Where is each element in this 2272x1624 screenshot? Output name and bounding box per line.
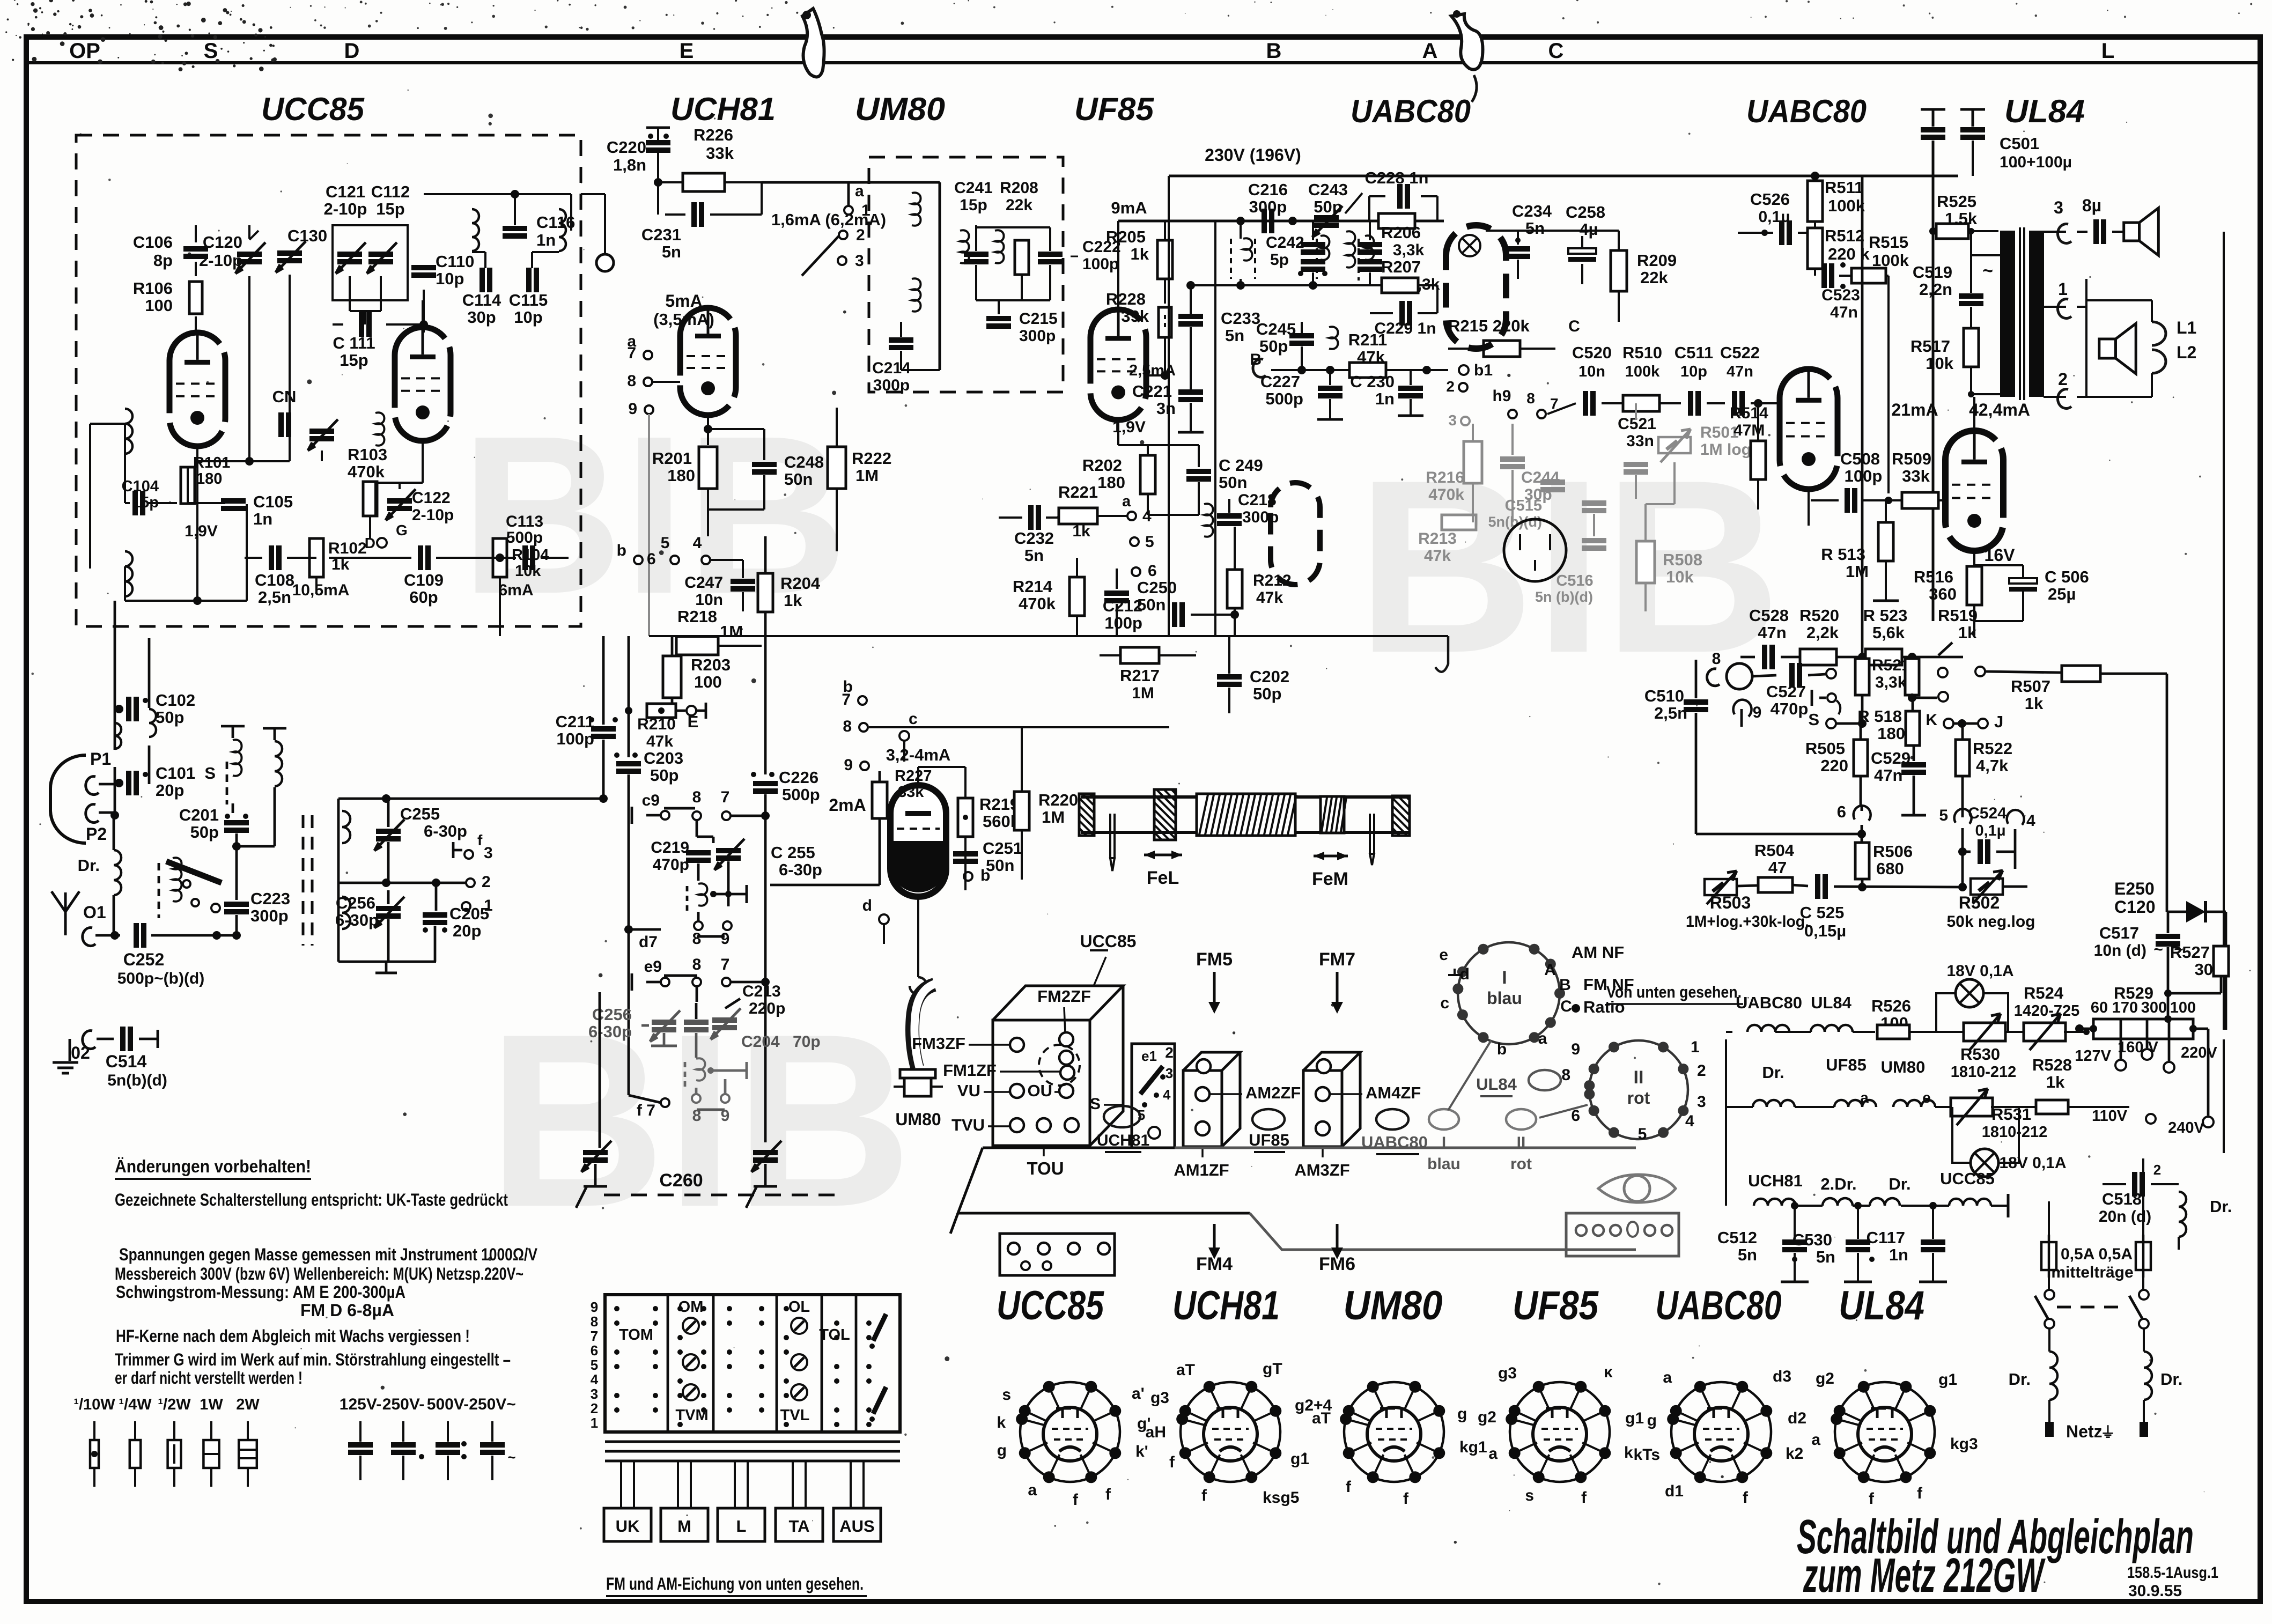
svg-text:5: 5 [1939,807,1948,824]
svg-text:R515: R515 [1869,233,1908,252]
svg-text:UCH81: UCH81 [1748,1171,1803,1190]
svg-text:UABC80: UABC80 [1656,1283,1782,1328]
svg-text:UK: UK [616,1517,640,1536]
svg-text:R508: R508 [1663,550,1702,569]
svg-text:AUS: AUS [839,1517,874,1536]
svg-text:3: 3 [484,844,493,862]
svg-text:2,5n: 2,5n [1654,704,1687,722]
svg-text:UL84: UL84 [1839,1283,1924,1328]
svg-text:AM2ZF: AM2ZF [1245,1083,1301,1102]
svg-text:f: f [477,832,483,848]
svg-text:3: 3 [591,1386,598,1402]
svg-text:g3: g3 [1150,1389,1169,1407]
svg-text:8: 8 [692,930,702,948]
svg-text:4: 4 [693,534,702,552]
svg-text:C120: C120 [2114,897,2156,917]
svg-text:158.5-1Ausg.1: 158.5-1Ausg.1 [2127,1564,2218,1582]
svg-text:R208: R208 [1000,179,1038,197]
svg-text:C106: C106 [133,233,173,252]
svg-text:10p: 10p [1680,363,1707,380]
svg-text:9: 9 [1753,704,1762,721]
svg-text:7: 7 [721,788,730,806]
svg-text:a: a [1488,1445,1498,1463]
svg-text:470p: 470p [653,856,689,874]
svg-text:Dr.: Dr. [1762,1063,1784,1082]
svg-text:2: 2 [1165,1044,1174,1061]
svg-text:TVL: TVL [780,1407,810,1424]
svg-text:C223: C223 [250,889,290,908]
svg-text:g: g [1457,1405,1467,1423]
svg-text:Trimmer G wird im Werk auf min: Trimmer G wird im Werk auf min. Störstra… [115,1350,511,1369]
svg-text:1: 1 [591,1415,598,1431]
svg-text:~: ~ [2153,941,2163,958]
svg-text:f: f [1581,1489,1587,1507]
svg-text:FM1ZF: FM1ZF [943,1061,997,1080]
svg-text:C214: C214 [872,359,911,377]
svg-text:C220: C220 [607,138,646,157]
svg-text:VU: VU [957,1081,980,1100]
svg-text:C260: C260 [659,1170,703,1191]
svg-text:C205: C205 [449,904,489,923]
svg-text:g: g [1647,1412,1657,1429]
svg-text:s: s [1525,1487,1534,1504]
svg-text:aT: aT [1312,1409,1331,1427]
svg-text:R 513: R 513 [1821,545,1865,564]
svg-text:C255: C255 [400,804,440,823]
svg-text:TOM: TOM [619,1326,653,1344]
svg-text:c: c [1440,994,1449,1012]
svg-text:1,8n: 1,8n [613,156,646,174]
svg-text:R517: R517 [1910,337,1950,356]
svg-text:b: b [617,542,626,559]
svg-text:220p: 220p [749,1000,785,1017]
svg-text:1k: 1k [2046,1073,2065,1091]
svg-text:1M log.: 1M log. [1700,441,1755,459]
svg-text:2mA: 2mA [829,795,866,815]
svg-text:C122: C122 [412,489,451,507]
svg-text:500V-: 500V- [427,1396,469,1413]
svg-text:R505: R505 [1805,739,1845,758]
svg-text:k2: k2 [1786,1445,1803,1463]
svg-text:kTs: kTs [1634,1446,1660,1464]
svg-text:UCC85: UCC85 [1080,932,1137,951]
svg-text:c: c [909,710,918,728]
svg-text:1k: 1k [784,591,802,610]
svg-text:220 k: 220 k [1828,245,1870,263]
svg-text:30p: 30p [467,308,496,327]
svg-text:UM80: UM80 [895,1110,941,1129]
svg-text:II: II [1634,1067,1644,1088]
svg-text:a': a' [1132,1385,1145,1402]
svg-text:b: b [1497,1040,1507,1058]
svg-text:d3: d3 [1773,1368,1791,1385]
svg-text:h9: h9 [1492,387,1511,405]
svg-text:C519: C519 [1913,263,1952,282]
svg-text:d2: d2 [1788,1409,1806,1427]
svg-text:R205: R205 [1106,227,1146,246]
svg-text:C524: C524 [1968,804,2007,822]
svg-text:6mA: 6mA [498,581,533,599]
svg-text:d7: d7 [639,933,658,951]
svg-text:5n (b)(d): 5n (b)(d) [1535,589,1593,605]
svg-text:C517: C517 [2099,924,2139,942]
svg-text:8µ: 8µ [2082,196,2101,215]
svg-text:P1: P1 [90,749,111,769]
svg-text:TA: TA [788,1517,809,1536]
svg-text:R216: R216 [1426,469,1464,486]
svg-text:C112: C112 [371,182,410,201]
svg-text:5n: 5n [1525,219,1545,238]
svg-text:42,4mA: 42,4mA [1969,400,2030,419]
svg-text:C256: C256 [592,1005,632,1024]
svg-text:9: 9 [591,1299,598,1315]
svg-text:UABC80: UABC80 [1351,93,1471,129]
svg-text:50n: 50n [986,856,1014,875]
svg-text:C250: C250 [1137,578,1177,597]
svg-text:kg3: kg3 [1950,1435,1978,1453]
svg-text:C501: C501 [2000,134,2039,153]
svg-text:470p: 470p [1771,699,1809,718]
svg-text:e: e [1439,946,1448,964]
svg-text:10k: 10k [1926,354,1953,373]
svg-text:UF85: UF85 [1074,91,1155,127]
svg-text:10,5mA: 10,5mA [292,581,350,599]
svg-text:R217: R217 [1120,666,1160,685]
svg-text:5n: 5n [1738,1245,1757,1264]
svg-text:50p: 50p [650,766,678,785]
svg-text:R520: R520 [1799,606,1839,625]
svg-text:300p: 300p [250,906,289,925]
svg-text:Von unten gesehen.: Von unten gesehen. [1606,983,1742,1001]
svg-text:100: 100 [694,673,722,691]
svg-text:R522: R522 [1973,739,2012,758]
svg-text:TVM: TVM [675,1407,708,1424]
svg-text:C242: C242 [1266,234,1304,252]
svg-text:100p: 100p [556,729,594,748]
svg-text:C: C [1548,39,1564,63]
svg-text:100: 100 [2170,999,2196,1016]
svg-text:10k: 10k [1666,567,1694,586]
svg-text:a: a [1122,493,1131,510]
svg-text:6: 6 [591,1342,598,1359]
svg-text:UCC85: UCC85 [1940,1169,1995,1188]
svg-text:C105: C105 [253,492,293,511]
svg-text:8p: 8p [153,251,173,270]
svg-text:5,6k: 5,6k [1872,623,1905,642]
svg-text:a: a [1028,1481,1037,1499]
svg-text:κ: κ [1604,1363,1613,1381]
svg-text:FeM: FeM [1312,869,1348,889]
svg-text:100p: 100p [1104,614,1142,632]
svg-text:R509: R509 [1892,449,1931,468]
svg-text:C234: C234 [1512,202,1552,220]
svg-text:C530: C530 [1792,1230,1832,1249]
svg-text:180: 180 [1877,724,1905,743]
svg-text:33n: 33n [1626,432,1654,450]
svg-text:220V: 220V [2181,1044,2217,1061]
svg-text:L2: L2 [2177,343,2196,362]
svg-text:2,5mA: 2,5mA [1129,362,1176,379]
svg-text:C113: C113 [506,513,543,530]
svg-text:C 506: C 506 [2045,567,2089,586]
svg-text:R524: R524 [2024,984,2064,1002]
svg-text:470k: 470k [348,462,385,481]
svg-text:rot: rot [1510,1155,1532,1173]
svg-text:170: 170 [2112,999,2138,1016]
svg-text:R510: R510 [1622,343,1662,362]
svg-text:470k: 470k [1428,486,1464,504]
svg-text:C211: C211 [556,712,594,731]
svg-text:C233: C233 [1221,309,1260,328]
svg-text:S: S [204,764,216,783]
svg-text:R202: R202 [1082,456,1122,475]
svg-text:a: a [1538,1030,1547,1047]
svg-text:8: 8 [627,372,636,390]
svg-text:Dr.: Dr. [1889,1175,1910,1193]
svg-text:AM3ZF: AM3ZF [1294,1161,1349,1179]
svg-text:9: 9 [1571,1040,1580,1058]
svg-text:3,3k: 3,3k [1393,241,1425,259]
svg-text:0,1µ: 0,1µ [1975,822,2005,839]
svg-text:s: s [1002,1386,1011,1404]
svg-text:6-30p: 6-30p [424,822,467,840]
svg-text:2: 2 [1697,1062,1706,1080]
svg-text:R103: R103 [348,445,387,464]
svg-text:f 7: f 7 [637,1102,655,1119]
svg-text:R221: R221 [1058,483,1098,501]
svg-text:6: 6 [1837,802,1846,821]
svg-text:180: 180 [196,470,222,488]
svg-text:UL84: UL84 [2004,93,2085,129]
svg-text:B: B [1266,39,1282,63]
svg-text:30: 30 [2195,960,2213,979]
svg-text:1810-212: 1810-212 [1982,1124,2048,1141]
svg-text:a: a [1663,1369,1672,1386]
svg-text:Dr.: Dr. [78,856,100,875]
svg-text:C527: C527 [1766,682,1806,701]
svg-text:8: 8 [1526,390,1535,407]
svg-text:OM: OM [678,1298,704,1316]
svg-text:60: 60 [2091,999,2108,1016]
svg-text:2,2n: 2,2n [1919,280,1952,299]
svg-text:8: 8 [692,956,702,973]
svg-text:f: f [1073,1491,1079,1509]
svg-text:21mA: 21mA [1891,400,1938,419]
svg-text:g: g [997,1442,1007,1459]
svg-text:UM80: UM80 [1344,1283,1443,1328]
svg-text:UM80: UM80 [855,91,945,127]
svg-text:C228 1n: C228 1n [1365,168,1429,187]
svg-text:1: 1 [2058,279,2068,299]
svg-text:100+100µ: 100+100µ [2000,153,2072,171]
svg-text:5: 5 [1638,1125,1647,1143]
svg-text:R527: R527 [2170,943,2210,962]
svg-text:Dr.: Dr. [2009,1370,2031,1389]
svg-text:C 249: C 249 [1219,456,1263,475]
svg-text:4,7k: 4,7k [1976,756,2009,775]
svg-text:a: a [1811,1431,1820,1449]
svg-text:C232: C232 [1014,529,1054,548]
svg-text:b1: b1 [1474,361,1493,379]
svg-text:er darf nicht verstellt werden: er darf nicht verstellt werden ! [115,1368,303,1387]
svg-text:R507: R507 [2011,677,2050,696]
svg-text:OL: OL [788,1298,810,1316]
svg-text:50p: 50p [1259,337,1288,356]
svg-text:10p: 10p [436,269,464,288]
svg-text:22k: 22k [1006,196,1032,214]
svg-text:1M: 1M [855,466,879,485]
svg-text:R506: R506 [1873,842,1913,861]
svg-text:L: L [736,1517,747,1536]
svg-text:R215 220k: R215 220k [1448,316,1530,335]
svg-text:C510: C510 [1644,686,1684,705]
svg-text:CN: CN [272,387,297,406]
svg-text:D: D [344,39,360,63]
svg-text:3: 3 [1697,1093,1706,1111]
svg-text:7: 7 [721,956,730,973]
svg-text:~: ~ [1982,261,1993,281]
svg-text:C508: C508 [1840,449,1880,468]
svg-text:C117: C117 [1867,1228,1905,1247]
svg-text:7: 7 [627,344,636,362]
svg-text:C203: C203 [644,749,683,767]
svg-text:2,5n: 2,5n [258,588,291,607]
svg-text:500p~(b)(d): 500p~(b)(d) [117,970,205,987]
svg-text:C120: C120 [203,233,242,252]
svg-text:500p: 500p [1265,389,1303,408]
svg-text:FM D 6-8µA: FM D 6-8µA [300,1301,394,1320]
svg-text:C216: C216 [1248,180,1288,199]
svg-text:33k: 33k [706,144,734,163]
svg-text:g3: g3 [1498,1364,1517,1382]
svg-text:R514: R514 [1730,404,1768,422]
svg-text:e9: e9 [644,958,662,976]
svg-text:8: 8 [591,1313,598,1330]
svg-text:250V-: 250V- [382,1396,424,1413]
svg-text:blau: blau [1487,988,1522,1008]
svg-text:R530: R530 [1960,1045,2000,1064]
svg-text:E: E [680,39,694,63]
svg-text:¹/2W: ¹/2W [158,1396,191,1413]
svg-text:3: 3 [2054,198,2063,217]
svg-text:47k: 47k [1256,589,1283,607]
svg-text:C231: C231 [641,225,681,244]
svg-text:a: a [1860,1089,1869,1106]
svg-text:180: 180 [1097,473,1125,492]
svg-text:C227: C227 [1260,372,1300,391]
svg-text:C204: C204 [741,1033,780,1051]
svg-text:FM2ZF: FM2ZF [1037,987,1091,1006]
svg-text:C114: C114 [462,291,501,309]
svg-text:1,9V: 1,9V [185,522,218,540]
svg-text:R228: R228 [1106,290,1146,308]
svg-text:300p: 300p [1249,197,1287,216]
svg-text:50p: 50p [1253,684,1281,703]
svg-text:C516: C516 [1556,572,1593,589]
svg-text:0,5A: 0,5A [2061,1245,2094,1263]
svg-text:K: K [1926,711,1937,729]
svg-text:C512: C512 [1717,1228,1757,1247]
svg-text:e: e [1922,1089,1931,1106]
svg-text:UCC85: UCC85 [997,1283,1104,1328]
svg-text:R211: R211 [1348,330,1387,349]
svg-text:R102: R102 [328,540,367,557]
svg-text:C247: C247 [684,574,723,592]
svg-text:R222: R222 [852,449,891,468]
svg-text:C514: C514 [106,1052,147,1071]
svg-text:100: 100 [145,296,173,315]
svg-text:R203: R203 [691,655,731,674]
svg-text:100k: 100k [1625,363,1660,380]
svg-text:230V (196V): 230V (196V) [1205,145,1301,165]
svg-text:f: f [1201,1487,1207,1504]
svg-text:7: 7 [842,691,851,708]
svg-text:3: 3 [1448,412,1457,429]
svg-text:R511: R511 [1825,178,1863,197]
svg-text:TOL: TOL [819,1326,850,1344]
svg-text:R212: R212 [1253,572,1292,589]
svg-text:f: f [1743,1489,1749,1507]
svg-text:C202: C202 [1250,667,1289,686]
svg-text:0,5A: 0,5A [2099,1245,2133,1263]
svg-text:3n: 3n [1156,399,1176,418]
svg-text:L1: L1 [2177,318,2196,337]
svg-text:R519: R519 [1938,606,1978,625]
svg-text:R 523: R 523 [1863,606,1908,625]
svg-text:50n: 50n [784,470,813,489]
svg-text:2-10p: 2-10p [199,251,242,270]
svg-text:FM3ZF: FM3ZF [912,1034,965,1053]
svg-text:Messbereich 300V (bzw 6V) Well: Messbereich 300V (bzw 6V) Wellenbereich:… [115,1264,523,1283]
svg-text:2: 2 [1446,378,1455,395]
svg-text:1n: 1n [1375,389,1395,408]
svg-text:UABC80: UABC80 [1746,93,1867,129]
svg-text:9: 9 [628,400,637,418]
svg-text:R 518: R 518 [1857,707,1902,726]
svg-text:5: 5 [1145,533,1154,551]
svg-text:R503: R503 [1710,893,1751,912]
svg-text:4: 4 [1142,507,1152,525]
svg-text:4: 4 [1685,1112,1694,1130]
svg-text:S: S [1808,710,1819,729]
svg-text:5n: 5n [1225,326,1244,345]
svg-text:~: ~ [507,1449,515,1465]
svg-text:g1: g1 [1938,1371,1957,1389]
svg-text:C241: C241 [954,179,993,197]
svg-text:mittelträge: mittelträge [2051,1264,2133,1281]
svg-text:TVU: TVU [951,1116,985,1134]
svg-text:9mA: 9mA [1111,198,1147,217]
svg-text:A: A [1544,961,1556,979]
svg-text:2-10p: 2-10p [324,200,367,218]
svg-text:Dr.: Dr. [2210,1197,2232,1216]
svg-text:10k: 10k [515,563,541,580]
svg-text:Dr.: Dr. [2160,1370,2182,1389]
svg-text:60p: 60p [409,588,438,607]
svg-text:C101: C101 [156,764,195,783]
svg-text:e1: e1 [1141,1048,1157,1064]
svg-text:8: 8 [1561,1066,1570,1084]
svg-text:C528: C528 [1749,606,1789,625]
svg-text:AM1ZF: AM1ZF [1174,1161,1229,1179]
svg-text:10n: 10n [1578,363,1605,380]
svg-text:c9: c9 [642,792,660,809]
svg-text:3: 3 [1165,1065,1173,1081]
svg-text:5n: 5n [662,242,681,261]
svg-text:¹/4W: ¹/4W [119,1396,152,1413]
svg-text:g2: g2 [1478,1408,1496,1426]
svg-text:Netz: Netz [2066,1422,2103,1441]
